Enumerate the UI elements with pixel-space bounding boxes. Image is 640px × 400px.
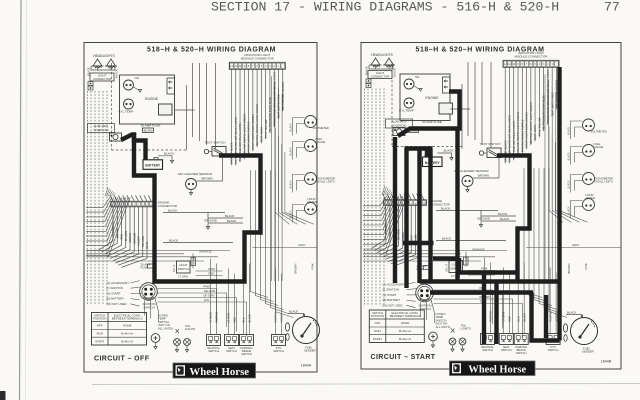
svg-text:HYDRO TEMP ORANGE NOT ON ALL U: HYDRO TEMP ORANGE NOT ON ALL UNITS xyxy=(546,70,550,125)
svg-text:BLACK: BLACK xyxy=(290,180,293,189)
battery B1 xyxy=(423,155,443,167)
wire bundle mid verticals xyxy=(250,76,314,317)
wire dashed engine boundary xyxy=(392,62,462,147)
svg-text:BLACK: BLACK xyxy=(500,217,510,221)
svg-text:1844B: 1844B xyxy=(601,360,612,364)
svg-text:BLACK: BLACK xyxy=(393,68,397,77)
tachometer xyxy=(305,173,336,185)
engine label xyxy=(145,97,159,101)
svg-text:START VOLTS DARK GREEN: START VOLTS DARK GREEN xyxy=(525,112,529,148)
engine pins xyxy=(167,78,175,94)
wire pink red to switch xyxy=(468,267,495,276)
svg-text:B+R+I+S: B+R+I+S xyxy=(399,337,411,341)
sheet number xyxy=(601,360,612,364)
wire engine connector drops xyxy=(372,205,422,266)
svg-text:RUN: RUN xyxy=(97,332,103,336)
svg-text:PARKING BRAKE PURPLE: PARKING BRAKE PURPLE xyxy=(247,121,251,154)
light connector xyxy=(368,71,392,79)
ignition switch terminal labels xyxy=(107,281,142,307)
auxiliary solenoid xyxy=(110,133,122,141)
hour meter xyxy=(583,193,595,211)
wire headlight feed xyxy=(87,66,119,78)
svg-text:BROWN: BROWN xyxy=(293,263,297,273)
svg-text:(A) ACCESSORY: (A) ACCESSORY xyxy=(107,281,130,285)
svg-text:AIR CLEANER SENSOR: AIR CLEANER SENSOR xyxy=(178,172,213,176)
svg-text:LIGHTS: LIGHTS xyxy=(185,327,195,331)
wire fuel sender black xyxy=(566,311,583,318)
circuit state label xyxy=(94,356,150,363)
wire thick highlighted xyxy=(404,149,408,289)
wire bundle mid verticals xyxy=(524,74,588,317)
indicator light module connector label xyxy=(515,51,549,59)
svg-text:Wheel Horse: Wheel Horse xyxy=(468,364,526,375)
light connector xyxy=(90,73,114,81)
hydro temp switch xyxy=(429,332,438,348)
engine pins xyxy=(443,77,451,93)
test switch xyxy=(204,141,226,157)
cyl temp sender xyxy=(119,99,134,114)
svg-text:HEADLAMP SWITCH LIGHT GREEN: HEADLAMP SWITCH LIGHT GREEN xyxy=(516,112,520,156)
ground engine oil xyxy=(134,87,142,92)
svg-text:OIL: OIL xyxy=(415,75,420,79)
svg-text:77: 77 xyxy=(604,0,620,15)
svg-text:Wheel Horse: Wheel Horse xyxy=(189,366,249,378)
svg-text:RED: RED xyxy=(508,316,512,322)
svg-text:CONNECTOR: CONNECTOR xyxy=(371,75,390,79)
wire air cleaner brown xyxy=(197,157,223,181)
svg-text:(B) BATTERY: (B) BATTERY xyxy=(107,297,125,301)
svg-text:LIGHTS: LIGHTS xyxy=(461,327,471,331)
ignition switch xyxy=(140,283,158,310)
auxiliary solenoid xyxy=(393,128,405,136)
wire thick highlighted xyxy=(532,293,560,341)
svg-text:NONE: NONE xyxy=(401,321,409,325)
svg-text:ORANGE: ORANGE xyxy=(132,232,136,244)
svg-text:BLACK: BLACK xyxy=(442,237,452,241)
svg-text:POSITION: POSITION xyxy=(93,317,106,321)
svg-text:BLACK: BLACK xyxy=(115,69,119,78)
svg-text:YELLOW: YELLOW xyxy=(204,289,216,293)
Wheel Horse logo xyxy=(173,363,256,378)
svg-text:SWITCH: SWITCH xyxy=(143,306,154,310)
wire thick highlighted xyxy=(405,146,433,150)
wire engine connector drops xyxy=(99,207,149,268)
wire ignition fan right xyxy=(434,286,523,337)
wire gauge leads xyxy=(568,201,583,219)
svg-text:P.T.O. YELLOW: P.T.O. YELLOW xyxy=(537,117,541,136)
ground engine oil xyxy=(414,86,422,91)
headlight lamp right xyxy=(383,58,395,67)
circuit state label xyxy=(371,354,436,361)
svg-text:SENDER: SENDER xyxy=(582,350,594,354)
svg-text:CIRCUIT – OFF: CIRCUIT – OFF xyxy=(94,356,150,363)
svg-text:BLUE: BLUE xyxy=(145,242,149,249)
svg-text:RED: RED xyxy=(233,317,237,323)
wire ignition drops xyxy=(145,298,159,322)
svg-text:30 AMP FUSE: 30 AMP FUSE xyxy=(141,124,161,128)
wire pink red to switch xyxy=(196,267,223,276)
svg-text:BROWN: BROWN xyxy=(567,263,571,273)
svg-text:ENGINE: ENGINE xyxy=(426,96,440,100)
svg-text:METER: METER xyxy=(308,200,317,204)
wire switch drops xyxy=(483,258,559,334)
regulator rectifier xyxy=(439,103,453,114)
svg-text:HEADLIGHTS: HEADLIGHTS xyxy=(371,53,393,57)
wire thick highlighted xyxy=(433,256,459,260)
fuel gauge xyxy=(583,142,604,157)
svg-text:BLACK: BLACK xyxy=(289,310,299,314)
wire battery ground black xyxy=(158,151,174,163)
wire switch drops xyxy=(209,259,284,335)
svg-text:30 AMP FUSE: 30 AMP FUSE xyxy=(422,120,442,124)
page fold line xyxy=(20,0,27,400)
svg-text:BLACK: BLACK xyxy=(290,210,293,219)
svg-text:TAN: TAN xyxy=(204,298,209,302)
svg-text:BLACK: BLACK xyxy=(169,239,179,243)
svg-text:ORANGE: ORANGE xyxy=(199,250,212,254)
svg-text:TEST SWITCH: TEST SWITCH xyxy=(480,142,501,146)
diagram frame xyxy=(84,43,317,373)
headlights label xyxy=(93,54,115,58)
svg-text:CIRCUIT – START: CIRCUIT – START xyxy=(371,354,436,361)
wire thick highlighted xyxy=(428,149,432,282)
svg-text:ALL UNITS): ALL UNITS) xyxy=(436,325,451,329)
voltmeter xyxy=(305,116,329,131)
svg-text:MODULE CONNECTOR: MODULE CONNECTOR xyxy=(515,54,549,58)
wire thick highlighted xyxy=(398,92,460,137)
svg-text:VIOLET: VIOLET xyxy=(137,236,141,246)
wire left bus xyxy=(86,187,130,255)
svg-text:(BLFM): (BLFM) xyxy=(144,129,153,133)
svg-text:BROWN: BROWN xyxy=(478,174,489,178)
svg-text:ALL UNITS): ALL UNITS) xyxy=(158,326,173,330)
wire ignition fan right xyxy=(158,285,247,336)
wire ground cluster black xyxy=(163,209,243,269)
wire thick highlighted xyxy=(403,241,434,245)
wire ignition drops xyxy=(421,300,435,324)
engine label xyxy=(426,96,440,100)
indicator light module connector label xyxy=(241,53,275,61)
wire gauge leads xyxy=(568,175,583,193)
title xyxy=(147,47,276,54)
svg-text:LT GRN: LT GRN xyxy=(502,312,506,322)
svg-text:GROUND: GROUND xyxy=(204,219,217,223)
wire gauge leads xyxy=(290,142,305,160)
svg-text:PINK: PINK xyxy=(204,285,211,289)
wire thick highlighted xyxy=(121,135,146,160)
20 amp fuse xyxy=(141,263,156,270)
svg-text:BLACK: BLACK xyxy=(227,219,237,223)
wire gray lead xyxy=(252,243,317,274)
svg-text:(M) NOT USED: (M) NOT USED xyxy=(383,303,403,307)
svg-text:BLK: BLK xyxy=(516,316,520,321)
wire fuel sender black xyxy=(288,310,305,317)
svg-text:PURPLE: PURPLE xyxy=(215,312,219,323)
svg-text:START: START xyxy=(95,340,104,344)
svg-text:PARKING BRAKE PURPLE: PARKING BRAKE PURPLE xyxy=(520,119,524,152)
svg-text:OIL: OIL xyxy=(135,76,140,80)
voltmeter xyxy=(583,119,607,134)
svg-text:RUN: RUN xyxy=(374,329,380,333)
headlights label xyxy=(371,53,393,57)
test switch xyxy=(479,142,501,158)
svg-text:PURPLE: PURPLE xyxy=(548,311,552,322)
oil pressure sender xyxy=(404,75,420,89)
oil pressure sender xyxy=(124,76,140,90)
svg-text:NO. LT: NO. LT xyxy=(173,264,176,272)
regulator rectifier xyxy=(159,104,173,115)
wire indicator connector fan xyxy=(230,69,285,165)
wire thick highlighted xyxy=(393,137,397,283)
wire thick highlighted xyxy=(494,282,498,345)
svg-text:GAUGE: GAUGE xyxy=(316,140,326,144)
svg-text:WHITE: WHITE xyxy=(115,229,119,238)
switch position table xyxy=(92,313,147,346)
svg-text:BLACK: BLACK xyxy=(441,207,451,211)
30 amp fuse label xyxy=(141,124,161,133)
svg-text:(I) IGNITION: (I) IGNITION xyxy=(383,288,399,292)
seat switch xyxy=(499,334,513,353)
svg-text:(S) START: (S) START xyxy=(383,293,397,297)
svg-text:LT GRN: LT GRN xyxy=(194,256,196,264)
svg-text:GROUND–BLACK: GROUND–BLACK xyxy=(230,142,234,164)
svg-text:TEST SWITCH: TEST SWITCH xyxy=(205,141,226,145)
svg-text:BLACK: BLACK xyxy=(568,180,571,189)
hydro temp switch label xyxy=(158,314,173,331)
svg-text:SWITCH: SWITCH xyxy=(548,348,559,352)
svg-text:OFF: OFF xyxy=(97,324,103,328)
svg-text:RED: RED xyxy=(120,234,124,240)
svg-text:BLACK: BLACK xyxy=(498,212,508,216)
wire gauge leads xyxy=(290,118,305,136)
svg-text:RED: RED xyxy=(209,272,215,276)
svg-text:BLACK: BLACK xyxy=(568,206,571,215)
wire gray lead xyxy=(526,243,621,274)
svg-text:HYDRO TEMP ORANGE NOT ON ALL U: HYDRO TEMP ORANGE NOT ON ALL UNITS xyxy=(272,72,276,127)
auxiliary solenoid label xyxy=(88,124,115,133)
headlight lamp left xyxy=(92,59,104,68)
light connector pins xyxy=(366,79,371,88)
engine connector xyxy=(111,201,178,209)
wire engine connector leads up xyxy=(383,194,424,200)
wire dashed harness left edge xyxy=(88,91,108,306)
svg-text:PINK: PINK xyxy=(310,263,314,269)
svg-text:DK GRN: DK GRN xyxy=(204,294,215,298)
page header xyxy=(211,0,620,15)
svg-text:TEST–GRAY: TEST–GRAY xyxy=(533,125,537,141)
svg-text:TEST–GRAY: TEST–GRAY xyxy=(259,127,263,143)
svg-text:SWITCH: SWITCH xyxy=(273,349,284,353)
wire thick highlighted xyxy=(420,279,560,283)
neutral switch xyxy=(481,334,495,353)
switch position table xyxy=(369,310,424,343)
svg-text:GREEN: GREEN xyxy=(128,233,132,243)
svg-text:START VOLTS DARK GREEN: START VOLTS DARK GREEN xyxy=(251,114,255,150)
svg-text:VOLTMETER: VOLTMETER xyxy=(313,126,329,130)
svg-text:P.T.O. YELLOW: P.T.O. YELLOW xyxy=(264,119,268,138)
svg-text:NEUTRAL SWITCH LIGHT GREEN: NEUTRAL SWITCH LIGHT GREEN xyxy=(255,104,259,146)
svg-text:POSITION: POSITION xyxy=(371,314,384,318)
svg-text:HEADLAMP SWITCH LIGHT GREEN: HEADLAMP SWITCH LIGHT GREEN xyxy=(242,114,246,158)
tail lights xyxy=(174,324,196,352)
auxiliary solenoid label xyxy=(386,119,413,128)
svg-text:BETWEEN TERMINALS: BETWEEN TERMINALS xyxy=(390,314,421,318)
svg-text:BLACK: BLACK xyxy=(290,123,293,132)
svg-text:CONNECTOR: CONNECTOR xyxy=(93,77,112,81)
tachometer xyxy=(583,173,614,185)
wire gauge leads xyxy=(290,175,305,193)
svg-text:GAUGE: GAUGE xyxy=(594,145,604,149)
PTO switch xyxy=(546,334,560,353)
svg-text:(M) NOT USED: (M) NOT USED xyxy=(107,302,127,306)
svg-text:BLACK: BLACK xyxy=(567,311,577,315)
wire thick highlighted xyxy=(544,295,548,338)
svg-text:BLACK: BLACK xyxy=(168,209,178,213)
svg-text:BROWN: BROWN xyxy=(202,177,213,181)
svg-text:SWITCH: SWITCH xyxy=(501,348,512,352)
wire indicator connector fan xyxy=(503,67,558,163)
Wheel Horse logo xyxy=(450,361,536,376)
hour meter xyxy=(305,197,317,215)
svg-text:(B) BATTERY: (B) BATTERY xyxy=(383,298,401,302)
svg-text:YELLOW: YELLOW xyxy=(141,236,145,248)
svg-text:BLACK: BLACK xyxy=(290,147,293,156)
svg-text:MODULE CONNECTOR: MODULE CONNECTOR xyxy=(241,56,275,60)
svg-text:PURPLE: PURPLE xyxy=(274,312,278,323)
svg-text:SWITCH: SWITCH xyxy=(226,349,237,353)
svg-text:BLK: BLK xyxy=(242,317,246,322)
svg-text:(A) ACCESSORY: (A) ACCESSORY xyxy=(383,283,406,287)
svg-text:FUSE: FUSE xyxy=(141,266,149,270)
svg-text:LT GRN: LT GRN xyxy=(179,275,188,279)
svg-text:VOLTMETER: VOLTMETER xyxy=(591,130,607,134)
ignition switch xyxy=(416,284,434,311)
diagram frame xyxy=(361,43,621,370)
svg-text:B+R+I+S: B+R+I+S xyxy=(121,340,133,344)
cyl temp sender xyxy=(399,98,414,113)
wire thick highlighted xyxy=(482,273,486,345)
svg-text:BLACK: BLACK xyxy=(522,313,526,322)
svg-text:START: START xyxy=(373,337,382,341)
fuel sender xyxy=(293,317,320,353)
svg-text:BLACK: BLACK xyxy=(164,151,174,155)
svg-text:NO. LT: NO. LT xyxy=(446,263,449,271)
svg-text:VIOLET: VIOLET xyxy=(280,313,284,323)
wire thick highlighted xyxy=(417,149,421,284)
svg-text:LT GRN: LT GRN xyxy=(466,255,468,263)
svg-text:(I) IGNITION: (I) IGNITION xyxy=(107,286,123,290)
svg-text:PURPLE: PURPLE xyxy=(489,311,493,322)
wire mid horizontals xyxy=(86,251,230,262)
svg-text:LT GRN: LT GRN xyxy=(227,313,231,323)
svg-text:GROUND: GROUND xyxy=(477,217,490,221)
svg-text:BATTERY: BATTERY xyxy=(145,164,161,168)
svg-text:BLACK: BLACK xyxy=(568,152,571,161)
svg-text:BETWEEN TERMINALS: BETWEEN TERMINALS xyxy=(112,317,143,321)
svg-text:BLACK: BLACK xyxy=(248,314,252,323)
svg-text:CYL TEMP: CYL TEMP xyxy=(399,109,414,113)
parking brake switch xyxy=(240,335,254,357)
svg-text:DK GRN: DK GRN xyxy=(397,229,401,240)
svg-text:GRAY: GRAY xyxy=(572,243,580,247)
wire headlight feed xyxy=(365,65,397,77)
wire ground cluster black xyxy=(436,207,516,267)
svg-text:PINK: PINK xyxy=(584,263,588,269)
wire mid horizontals xyxy=(363,251,507,262)
svg-text:SECTION 17 - WIRING DIAGRAMS -: SECTION 17 - WIRING DIAGRAMS - 516-H & 5… xyxy=(211,0,559,15)
svg-text:B+R+I+A: B+R+I+A xyxy=(121,332,133,336)
wire thick highlighted xyxy=(557,67,561,341)
svg-text:HEADLIGHTS: HEADLIGHTS xyxy=(93,54,115,58)
svg-text:BLACK: BLACK xyxy=(444,149,454,153)
headlight lamp left xyxy=(370,58,382,67)
title xyxy=(416,47,545,54)
air cleaner sensor xyxy=(178,172,213,195)
svg-text:SOLENOID: SOLENOID xyxy=(94,128,109,132)
tail lights xyxy=(449,324,471,352)
air cleaner sensor xyxy=(454,169,489,192)
svg-text:ORANGE: ORANGE xyxy=(472,248,485,252)
battery B1 xyxy=(143,158,163,170)
wire battery ground black xyxy=(438,149,454,161)
svg-text:(S) START: (S) START xyxy=(107,291,121,295)
svg-text:SWITCH: SWITCH xyxy=(241,352,252,356)
headlight lamp right xyxy=(105,59,117,68)
wire thick highlighted xyxy=(134,133,261,282)
fuel gauge xyxy=(305,137,326,152)
svg-text:ENGINE: ENGINE xyxy=(145,97,159,101)
svg-text:1844A: 1844A xyxy=(301,364,312,368)
light switch xyxy=(173,256,196,279)
scan corner mark xyxy=(0,391,6,400)
svg-text:BLACK: BLACK xyxy=(225,214,235,218)
svg-text:SWITCH: SWITCH xyxy=(178,267,189,271)
30 amp fuse label xyxy=(408,120,442,133)
wire dashed engine boundary xyxy=(112,63,187,150)
wire gauge leads xyxy=(568,147,583,165)
svg-text:NONE: NONE xyxy=(123,324,131,328)
wire thick highlighted xyxy=(459,258,518,273)
ignition switch terminal labels xyxy=(383,282,418,308)
wire thick highlighted xyxy=(425,149,429,158)
engine outline xyxy=(120,75,175,124)
svg-text:B+R+I+A: B+R+I+A xyxy=(399,329,411,333)
wire air cleaner brown xyxy=(473,154,499,178)
svg-text:METER: METER xyxy=(586,196,595,200)
20 amp fuse xyxy=(417,264,432,271)
wire thick highlighted xyxy=(455,127,459,282)
wire gauge leads xyxy=(568,121,583,139)
indicator light module connector xyxy=(229,62,285,69)
wire left bus xyxy=(363,186,407,254)
svg-text:OFF: OFF xyxy=(375,321,381,325)
wire engine connector leads up xyxy=(110,195,151,201)
svg-text:SENDER: SENDER xyxy=(304,349,316,353)
wire thick highlighted xyxy=(497,156,530,282)
engine outline xyxy=(400,74,450,121)
svg-text:SWITCH: SWITCH xyxy=(516,351,527,355)
PTO switch xyxy=(272,335,286,354)
svg-text:AIR CLEANER BROWN: AIR CLEANER BROWN xyxy=(281,82,285,111)
wire thick highlighted xyxy=(430,290,533,294)
hydro temp switch xyxy=(151,334,160,350)
wires engine right side xyxy=(450,62,491,149)
light switch xyxy=(446,255,469,278)
svg-text:GRAY: GRAY xyxy=(298,243,306,247)
svg-text:DK GRN: DK GRN xyxy=(124,231,128,242)
wire dashed harness left edge xyxy=(365,89,385,306)
svg-text:CONNECTOR: CONNECTOR xyxy=(158,204,178,208)
